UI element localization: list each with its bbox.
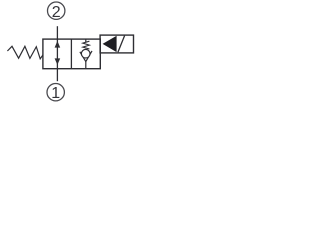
svg-text:1: 1 bbox=[51, 85, 60, 102]
svg-text:2: 2 bbox=[52, 4, 61, 21]
